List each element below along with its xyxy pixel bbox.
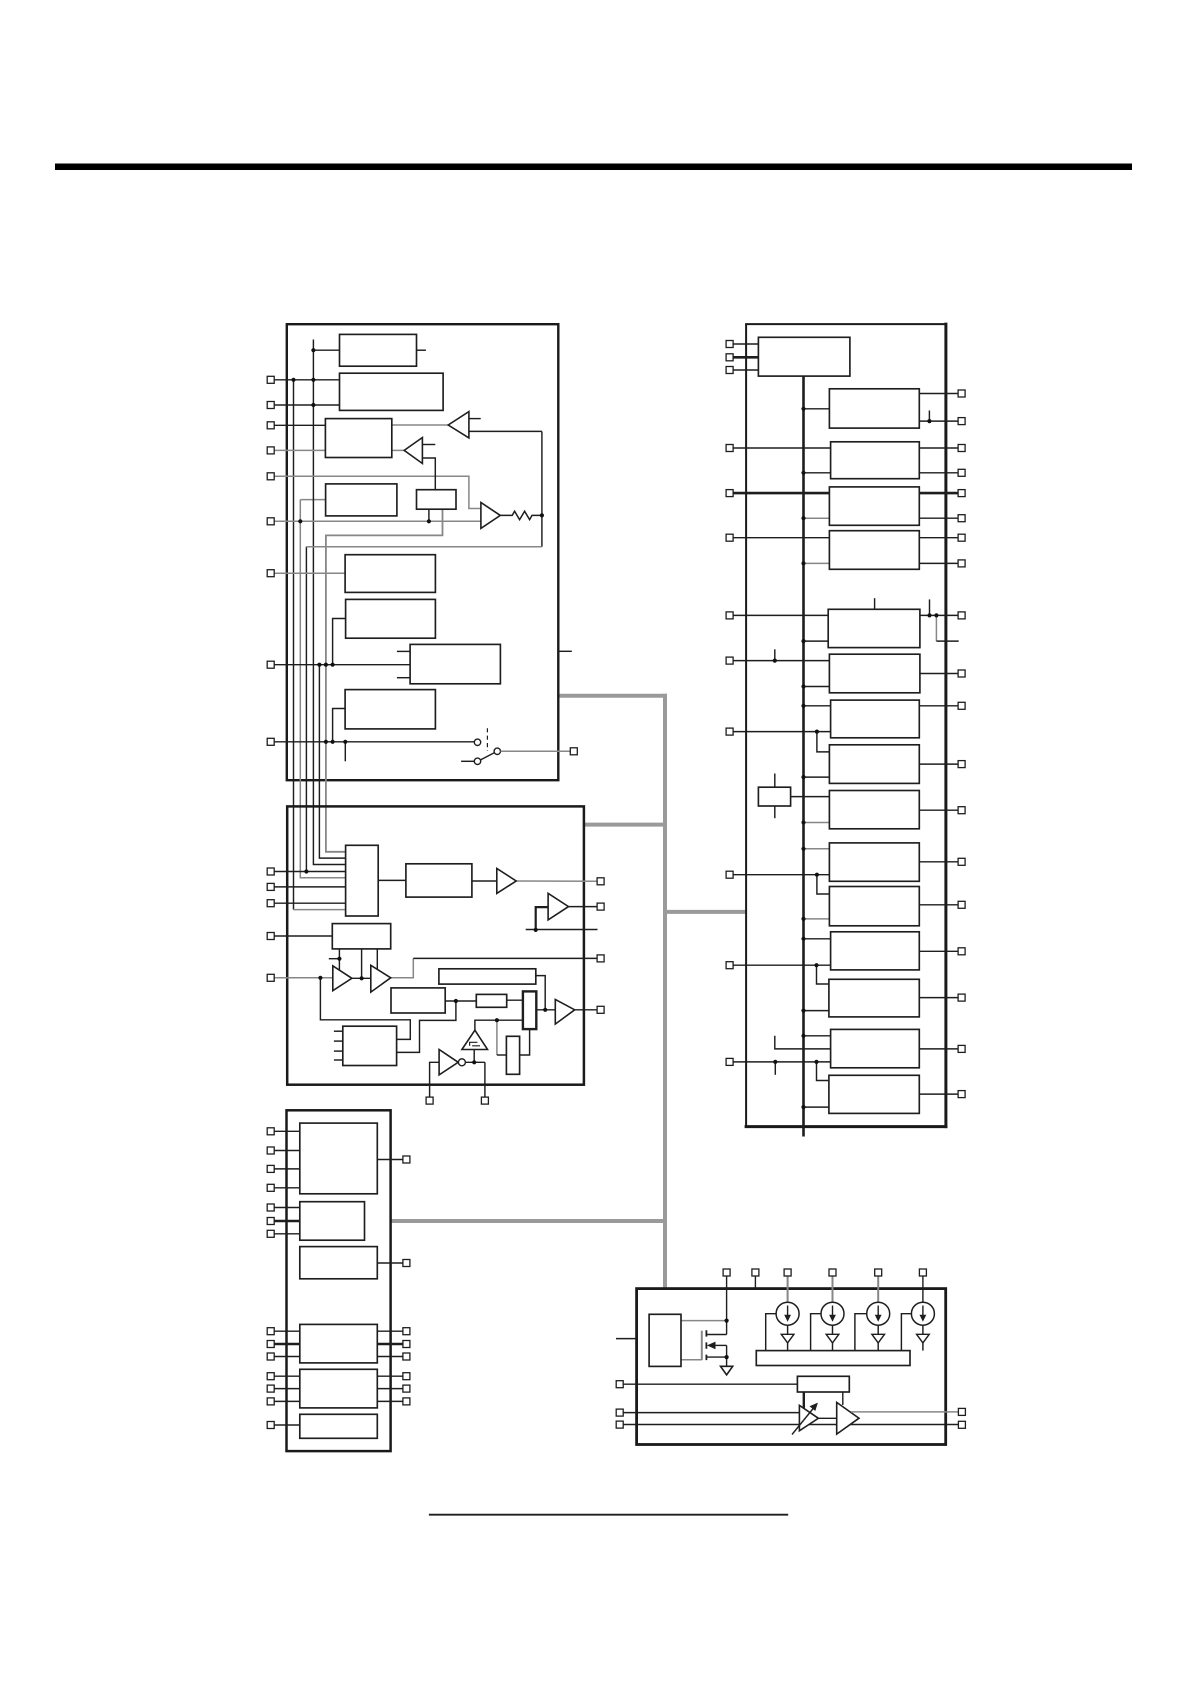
wire IC1 right stub xyxy=(558,650,572,652)
pin xyxy=(958,702,965,709)
pin xyxy=(726,871,733,878)
junction xyxy=(427,519,431,523)
junction xyxy=(801,561,805,565)
junction xyxy=(360,976,364,980)
pin xyxy=(958,418,965,425)
box R11 xyxy=(829,843,919,881)
wire box S out1 gray xyxy=(681,1320,727,1322)
wire box B1 right stub xyxy=(417,349,426,351)
wire box G to box H xyxy=(507,999,523,1001)
pin SW1 out xyxy=(570,748,577,755)
wire bus to R13 xyxy=(804,938,831,940)
wire box N out3 xyxy=(377,1356,403,1358)
box N xyxy=(300,1324,378,1363)
wire R9 out xyxy=(919,763,958,765)
junction xyxy=(801,516,805,520)
wire bus6 gray xyxy=(326,509,443,852)
pin xyxy=(403,1341,410,1348)
pin xyxy=(726,354,733,361)
wire buffer A stub xyxy=(469,418,481,420)
crystal box Q stub top xyxy=(774,774,776,788)
pin line N1 xyxy=(274,1330,300,1332)
arrowhead CS4 xyxy=(917,1334,930,1343)
box D xyxy=(391,988,445,1013)
pin left xyxy=(616,1421,623,1428)
box R4 xyxy=(829,487,919,525)
IC4 outline left xyxy=(745,324,747,1127)
pin right 1 xyxy=(958,1408,965,1415)
wire R2 out1 xyxy=(919,393,958,395)
crystal box Q stub bottom xyxy=(774,806,776,818)
wire R14 out xyxy=(919,997,958,999)
pin xyxy=(267,422,274,429)
box R6 xyxy=(828,609,920,647)
wire box Q out xyxy=(791,796,830,798)
box B9 xyxy=(345,690,435,729)
IC5 outline xyxy=(637,1289,946,1445)
junction xyxy=(318,976,322,980)
pin top xyxy=(875,1269,882,1276)
junction xyxy=(311,348,315,352)
pin xyxy=(726,341,733,348)
pin xyxy=(267,1204,274,1211)
wire amp C out xyxy=(575,1009,597,1011)
switch SW1 common xyxy=(494,748,500,754)
pin left xyxy=(616,1409,623,1416)
junction drain xyxy=(725,1319,729,1323)
transistor Q1 channel dashes xyxy=(705,1330,707,1360)
pin xyxy=(267,738,274,745)
junction xyxy=(801,1034,805,1038)
wire CS1 drop lower xyxy=(787,1343,789,1351)
wire net N958 xyxy=(413,957,597,959)
pin xyxy=(726,657,733,664)
pin xyxy=(267,1353,274,1360)
buffer A xyxy=(448,412,469,438)
pin line O2 xyxy=(274,1388,300,1390)
pin xyxy=(726,962,733,969)
wire box K out xyxy=(377,1159,403,1161)
pin xyxy=(267,1341,274,1348)
box R13 xyxy=(831,932,920,970)
box M xyxy=(300,1247,378,1279)
pin xyxy=(267,1165,274,1172)
pin xyxy=(958,445,965,452)
box R14 xyxy=(829,979,919,1017)
pin line K xyxy=(274,1130,300,1132)
wire gray drop Q7 xyxy=(935,615,937,641)
pin xyxy=(958,858,965,865)
box R12 xyxy=(829,887,919,926)
arrowhead CS1 xyxy=(781,1334,794,1343)
wire bus1 vertical xyxy=(293,380,295,910)
junction xyxy=(311,403,315,407)
wire amp chain xyxy=(818,1417,836,1419)
junction xyxy=(801,937,805,941)
pin line P3 xyxy=(274,424,325,426)
bus wire node-to-IC4 xyxy=(663,910,746,914)
buffer D xyxy=(333,966,352,991)
wire box O out1 xyxy=(377,1375,403,1377)
current source CS4 side wire xyxy=(901,1314,911,1351)
wire mosfet source xyxy=(706,1356,726,1358)
pin xyxy=(958,534,965,541)
wire R5 out2 xyxy=(919,562,958,564)
pin xyxy=(267,1385,274,1392)
pin xyxy=(267,376,274,383)
buffer F xyxy=(497,869,516,894)
box E xyxy=(343,1026,397,1065)
wire box B8 stub upper xyxy=(397,650,410,652)
wire box O out3 xyxy=(377,1400,403,1402)
IC1 outline xyxy=(287,324,559,780)
pin top xyxy=(919,1269,926,1276)
junction xyxy=(815,730,819,734)
pin xyxy=(958,490,965,497)
wire bus to R2 xyxy=(804,408,830,410)
arrowhead CS3 xyxy=(872,1334,885,1343)
wire box M out xyxy=(377,1262,403,1264)
pin bottom 2 xyxy=(481,1097,488,1104)
pin xyxy=(403,1328,410,1335)
wire bus to R4 gray xyxy=(804,517,830,519)
wire stub tick xyxy=(329,958,340,960)
junction xyxy=(324,663,328,667)
pin xyxy=(958,515,965,522)
wire buffer B out xyxy=(422,458,435,490)
pin line Q3 xyxy=(733,369,758,371)
pin line Q4 through R3 xyxy=(733,447,831,449)
pin xyxy=(726,534,733,541)
wire bus1 elbow gray xyxy=(294,909,346,911)
box I xyxy=(506,1036,519,1074)
current source CS3 side wire xyxy=(855,1314,867,1351)
wire schmitt input xyxy=(473,1050,475,1063)
wire L-stub to R15 xyxy=(775,1036,831,1049)
pin line S3 through xyxy=(623,1424,958,1426)
wire bus to R6 xyxy=(804,640,829,642)
pin line L1 xyxy=(274,1207,300,1209)
bar box xyxy=(756,1351,910,1366)
pin line M3 xyxy=(274,902,345,904)
current source CS3 xyxy=(867,1302,890,1325)
junction xyxy=(331,663,335,667)
pin left xyxy=(616,1381,623,1388)
wire R5 out1 xyxy=(919,537,958,539)
wire box B8 stub lower xyxy=(397,677,410,679)
wire feedback M5 to box E xyxy=(320,978,410,1040)
junction xyxy=(801,917,805,921)
pin stem T1 xyxy=(726,1276,728,1321)
wire box H out xyxy=(536,1009,555,1011)
pin xyxy=(267,447,274,454)
current source CS1 side wire xyxy=(766,1314,776,1351)
pin line M5 gray xyxy=(274,977,333,979)
wire inverter input xyxy=(430,1062,440,1097)
pin line L2 thick xyxy=(274,1220,300,1223)
wire box D branch to box E xyxy=(397,1001,456,1052)
box R5 xyxy=(829,531,919,570)
pin xyxy=(958,469,965,476)
wire amp return gray xyxy=(306,546,542,548)
wire stub below P9 xyxy=(344,742,346,762)
pin xyxy=(597,903,604,910)
pin xyxy=(267,868,274,875)
current source CS4 arrow xyxy=(920,1306,927,1322)
switch SW1 linkage dashed xyxy=(486,728,488,751)
pin xyxy=(726,445,733,452)
wire CS3 drop upper xyxy=(877,1325,879,1334)
pin xyxy=(267,883,274,890)
wire amp A2 out gray xyxy=(851,1411,958,1413)
junction xyxy=(472,1060,476,1064)
box O xyxy=(300,1369,378,1408)
inverter U2 xyxy=(439,1050,458,1075)
wire box O out2 xyxy=(377,1388,403,1390)
wire R2 out2 stub xyxy=(928,411,930,422)
wire R4 out1 thick xyxy=(919,492,958,495)
current source CS2 arrow xyxy=(829,1306,836,1322)
wire buffer G input xyxy=(536,907,548,930)
wire bus to R8 xyxy=(804,705,831,707)
pin line P6 gray xyxy=(274,520,481,522)
pin line P4 gray xyxy=(274,449,325,451)
IC2 outline xyxy=(287,806,584,1084)
IC4 outline bottom xyxy=(745,1125,948,1128)
pin line M1 xyxy=(274,871,345,873)
current source CS1 xyxy=(776,1302,799,1325)
pin xyxy=(958,1091,965,1098)
wire bus to R7 xyxy=(804,686,830,688)
box E input tick xyxy=(334,1030,343,1032)
wire source to ground xyxy=(726,1357,728,1366)
current source CS3 arrow xyxy=(875,1306,882,1322)
wire to box I left xyxy=(497,1054,507,1056)
wire CS4 drop lower xyxy=(922,1343,924,1351)
bus trunk vertical xyxy=(802,376,805,1136)
pin xyxy=(403,1398,410,1405)
wire R11 out xyxy=(919,861,958,863)
wire box D out xyxy=(445,1000,476,1002)
pin xyxy=(726,367,733,374)
pin xyxy=(958,994,965,1001)
pin xyxy=(726,1058,733,1065)
wire box B3 to buffer A xyxy=(392,424,448,426)
wire buffer B stub xyxy=(422,444,435,446)
wire R4 out2 xyxy=(919,517,958,519)
pin line P8 xyxy=(274,664,410,666)
junction xyxy=(801,407,805,411)
wire Q10 stair to R12 xyxy=(817,875,830,894)
wire mosfet drain xyxy=(706,1334,726,1336)
pin right 2 xyxy=(958,1421,965,1428)
wire R2 out2 xyxy=(919,420,958,422)
wire Q11 stair to R14 xyxy=(817,965,829,984)
box G xyxy=(476,994,506,1007)
junction xyxy=(815,873,819,877)
box B xyxy=(332,924,390,949)
wire CS2 drop lower xyxy=(832,1343,834,1351)
pin line O1 xyxy=(274,1375,300,1377)
pin xyxy=(958,1045,965,1052)
pin xyxy=(267,1230,274,1237)
pin line P9 xyxy=(274,741,474,743)
pin line K xyxy=(274,1187,300,1189)
schmitt hysteresis glyph xyxy=(470,1042,480,1046)
pin line Q5 thick xyxy=(733,492,829,495)
box C xyxy=(439,969,536,984)
wire box B bottom stub3 xyxy=(376,949,378,970)
wire box B9 input xyxy=(333,709,346,742)
pin line K xyxy=(274,1168,300,1170)
junction xyxy=(934,613,938,617)
wire buffer chain xyxy=(352,977,371,979)
header rule xyxy=(55,164,1132,171)
pin xyxy=(267,933,274,940)
schmitt U1 xyxy=(462,1030,488,1049)
box J xyxy=(406,864,472,897)
box T stub thick xyxy=(803,1392,805,1408)
pin line N3 xyxy=(274,1356,300,1358)
pin xyxy=(958,948,965,955)
wire box B bottom stub2 xyxy=(361,949,363,978)
resistor R1 xyxy=(500,511,542,519)
switch SW1 contact a xyxy=(474,739,480,745)
box B5 xyxy=(417,490,457,510)
junction xyxy=(773,1060,777,1064)
wire box B7 input xyxy=(333,619,346,665)
wire box I to box H xyxy=(520,1029,530,1055)
IC5 left stub xyxy=(616,1338,637,1340)
box A xyxy=(346,845,379,916)
junction xyxy=(304,869,308,873)
pin xyxy=(267,570,274,577)
junction xyxy=(814,963,818,967)
wire box R6 top stub xyxy=(874,598,876,609)
wire bus to R12 gray xyxy=(804,918,830,920)
wire bus to R15 xyxy=(804,1035,831,1037)
pin xyxy=(403,1353,410,1360)
pin xyxy=(403,1156,410,1163)
junction xyxy=(343,740,347,744)
pin xyxy=(267,1147,274,1154)
amp A2 xyxy=(837,1402,859,1434)
bus wire IC2-to-node xyxy=(583,823,667,827)
wire R16 out xyxy=(919,1093,958,1095)
box R7 xyxy=(829,654,920,693)
pin stem T5 gray xyxy=(877,1276,879,1302)
wire box A to box J xyxy=(378,879,406,881)
wire stub N641 xyxy=(936,640,958,642)
pin line S1 xyxy=(623,1383,797,1385)
box E input tick xyxy=(334,1040,343,1042)
inverter U2 bubble xyxy=(458,1059,465,1066)
current source CS2 side wire xyxy=(811,1314,821,1351)
wire box S out2 gray xyxy=(681,1359,702,1361)
box R1 xyxy=(758,337,850,376)
pin xyxy=(267,402,274,409)
wire Q12 stub down xyxy=(774,1062,776,1075)
pin xyxy=(267,1128,274,1135)
junction xyxy=(927,613,931,617)
pin line Q10 xyxy=(733,874,829,876)
box T xyxy=(797,1376,849,1392)
pin line K xyxy=(274,1150,300,1152)
junction xyxy=(337,957,341,961)
pin line P5 gray xyxy=(274,476,481,508)
box B1 xyxy=(340,334,417,366)
pin line P1 xyxy=(274,379,339,381)
pin line M2 xyxy=(274,886,345,888)
wire CS1 drop upper xyxy=(787,1325,789,1334)
wire R6 out stub xyxy=(929,599,931,615)
pin xyxy=(958,612,965,619)
junction xyxy=(801,775,805,779)
amp C xyxy=(555,999,574,1024)
pin xyxy=(958,761,965,768)
pin line Q11 xyxy=(733,964,831,966)
pin top xyxy=(723,1269,730,1276)
wire bus3 xyxy=(305,547,307,872)
junction xyxy=(927,419,931,423)
pin line L3 xyxy=(274,1233,300,1235)
wire bus to R3 xyxy=(804,472,831,474)
wire Q8 stub xyxy=(774,649,776,660)
junction xyxy=(454,999,458,1003)
box R16 xyxy=(829,1075,919,1113)
wire gray drop xyxy=(496,1020,498,1055)
pin line M4 xyxy=(274,935,332,937)
box B7 xyxy=(346,599,436,638)
pin line S2 xyxy=(623,1412,799,1414)
box B3 xyxy=(325,419,391,458)
wire R8 out xyxy=(919,705,958,707)
junction xyxy=(495,1018,499,1022)
wire CS3 drop lower xyxy=(877,1343,879,1351)
wire inverter out xyxy=(466,1061,485,1063)
wire bus4 xyxy=(313,340,345,865)
pin xyxy=(958,560,965,567)
pin xyxy=(958,901,965,908)
wire SW1 output gray xyxy=(501,750,571,752)
buffer B xyxy=(404,438,422,464)
arrowhead CS2 xyxy=(826,1334,839,1343)
wire R13 out xyxy=(919,950,958,952)
switch SW1 lever xyxy=(481,753,495,760)
box R2 xyxy=(829,389,919,428)
buffer E xyxy=(371,965,391,992)
wire bus2 stub to box B4 xyxy=(300,499,325,501)
junction xyxy=(324,740,328,744)
switch SW1 contact b stub xyxy=(461,760,474,762)
crystal box Q xyxy=(758,787,790,806)
wire R10 out xyxy=(919,809,958,811)
pin xyxy=(726,728,733,735)
wire box B3 to buffer B xyxy=(392,449,404,451)
bus wire IC3-to-node xyxy=(391,1219,667,1223)
box R8 xyxy=(831,700,920,738)
box H xyxy=(523,991,536,1029)
junction xyxy=(801,684,805,688)
wire box B bottom stub1 xyxy=(338,949,340,970)
wire box J to buffer F xyxy=(472,880,497,882)
current source CS1 arrow xyxy=(784,1306,791,1322)
wire bus2 gray xyxy=(300,500,345,878)
pin xyxy=(726,612,733,619)
wire bus to R9 xyxy=(804,776,830,778)
IC4 outline top xyxy=(745,323,946,325)
junction xyxy=(773,659,777,663)
